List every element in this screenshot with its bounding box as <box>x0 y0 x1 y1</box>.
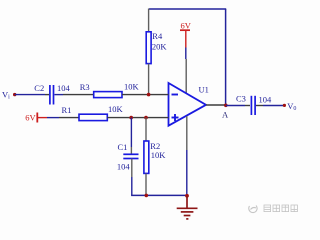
junction ground <box>185 194 189 198</box>
svg-text:10K: 10K <box>108 104 124 114</box>
wire C2 to R3 <box>55 94 64 96</box>
watermark text <box>264 205 297 212</box>
wire Vi to C2 <box>15 94 45 96</box>
capacitor C3 pins <box>245 105 250 107</box>
svg-text:U1: U1 <box>199 85 209 95</box>
wire bottom rail <box>131 194 187 196</box>
svg-text:104: 104 <box>117 162 130 172</box>
junction R4/R3/minus <box>147 93 151 97</box>
op-amp V+ pin <box>185 59 187 93</box>
wire op-amp output to node A <box>206 104 226 106</box>
wire R1 to op-amp plus <box>107 117 168 119</box>
capacitor C2 pins <box>45 94 49 96</box>
svg-text:6V: 6V <box>25 113 36 123</box>
wire top rail <box>149 8 226 10</box>
node A <box>224 104 228 108</box>
resistor R4 pin top <box>148 9 150 32</box>
capacitor C2 <box>49 85 51 105</box>
svg-text:R3: R3 <box>80 82 90 92</box>
svg-text:C3: C3 <box>236 94 246 104</box>
wire 6V to R1 (red) <box>37 117 47 119</box>
capacitor C1 <box>123 153 138 155</box>
op-amp V- pin <box>186 116 188 150</box>
svg-text:104: 104 <box>259 95 273 105</box>
svg-text:104: 104 <box>57 83 71 93</box>
resistor R4 pin bottom <box>148 64 150 95</box>
capacitor C3 <box>250 96 252 115</box>
junction R2 tap <box>144 116 148 120</box>
resistor R1 <box>79 114 107 120</box>
ground <box>177 196 198 219</box>
capacitor C1 pin top <box>130 147 132 154</box>
wire C3 to Vo <box>263 105 284 107</box>
junction R2 bottom <box>145 194 149 198</box>
capacitor C1 pin bottom <box>131 159 133 177</box>
resistor R4 <box>146 32 151 64</box>
resistor R2 pin bottom <box>145 173 147 195</box>
wire C1 to bottom rail <box>131 177 133 195</box>
wire C1 tap down <box>130 118 132 147</box>
wire V- to ground <box>186 150 188 196</box>
svg-text:R4: R4 <box>152 31 163 41</box>
svg-text:C1: C1 <box>118 142 128 152</box>
wire node A to C3 <box>226 105 245 107</box>
op-amp U1 <box>169 83 207 126</box>
svg-text:C2: C2 <box>34 83 44 93</box>
svg-text:R1: R1 <box>62 105 72 115</box>
resistor R1 pin left <box>59 117 79 119</box>
node Vo terminal <box>283 104 286 107</box>
resistor R2 pin top <box>145 118 147 141</box>
watermark logo <box>249 206 257 213</box>
junction C1 tap <box>129 116 133 120</box>
wire to R1 <box>47 117 59 119</box>
svg-text:6V: 6V <box>181 21 192 31</box>
svg-text:10K: 10K <box>151 150 167 160</box>
svg-text:20K: 20K <box>152 41 168 51</box>
wire right rail (feedback to node A) <box>225 9 227 105</box>
resistor R3 <box>94 92 122 98</box>
svg-text:A: A <box>222 110 229 120</box>
svg-text:10K: 10K <box>124 82 140 92</box>
resistor R2 <box>144 141 149 173</box>
wire 6V to op-amp V+ <box>185 48 187 60</box>
resistor R3 pin left <box>63 94 94 96</box>
wire R3 to op-amp minus <box>122 94 169 96</box>
